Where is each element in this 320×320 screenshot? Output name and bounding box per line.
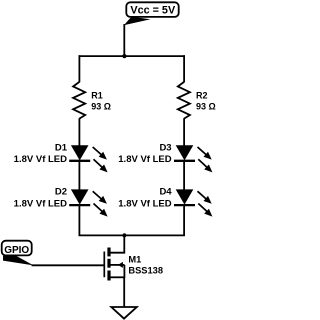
svg-text:1.8V Vf LED: 1.8V Vf LED: [14, 154, 67, 165]
LED D1 1.8V Vf: [14, 143, 108, 173]
wire D3 to D4: [183, 161, 185, 190]
svg-text:GPIO: GPIO: [4, 245, 29, 256]
junction dot on bottom rail: [122, 233, 126, 237]
svg-text:R2: R2: [196, 90, 208, 100]
svg-text:BSS138: BSS138: [128, 265, 163, 275]
wire bottom rail: [79, 234, 186, 236]
LED D2 1.8V Vf: [14, 187, 108, 217]
svg-text:D4: D4: [159, 187, 172, 198]
wire left branch top: [78, 55, 80, 82]
transistor M1 BSS138 n-channel MOSFET: [104, 248, 163, 281]
wire bottom rail to drain of M1: [111, 235, 125, 252]
wire right branch top: [183, 55, 185, 82]
resistor R1 93 ohm: [73, 82, 111, 119]
wire R1 to D1: [78, 118, 80, 146]
wire top rail: [79, 55, 186, 57]
wire D4 to bottom rail: [183, 205, 185, 235]
LED D3 1.8V Vf: [118, 143, 212, 173]
io flag GPIO: [2, 241, 34, 266]
wire R2 to D3: [183, 118, 185, 146]
svg-text:93 Ω: 93 Ω: [196, 101, 216, 111]
resistor R2 93 ohm: [178, 82, 216, 119]
svg-text:R1: R1: [91, 90, 103, 100]
svg-text:M1: M1: [128, 255, 141, 265]
svg-text:1.8V Vf LED: 1.8V Vf LED: [118, 154, 171, 165]
wire GPIO flag to gate of M1: [32, 264, 105, 266]
junction dot on top rail: [122, 54, 126, 58]
LED D4 1.8V Vf: [118, 187, 212, 217]
svg-text:D3: D3: [159, 143, 171, 154]
svg-text:Vcc = 5V: Vcc = 5V: [130, 5, 176, 17]
svg-text:93 Ω: 93 Ω: [91, 101, 111, 111]
svg-text:1.8V Vf LED: 1.8V Vf LED: [14, 199, 67, 210]
svg-text:D1: D1: [55, 143, 68, 154]
wire D2 to bottom rail: [78, 205, 80, 235]
svg-text:D2: D2: [55, 187, 67, 198]
wire D1 to D2: [78, 161, 80, 190]
power flag Vcc = 5V: [124, 2, 179, 25]
wire Vcc flag to top rail: [123, 24, 125, 56]
svg-text:1.8V Vf LED: 1.8V Vf LED: [118, 199, 171, 210]
wire source of M1 to ground: [123, 277, 125, 307]
ground: [111, 307, 137, 319]
